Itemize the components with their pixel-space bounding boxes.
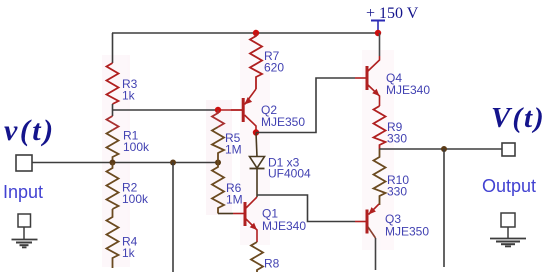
wire red to Q2 base [218,109,243,111]
svg-text:+ 150 V: + 150 V [366,5,419,22]
resistor R8 [251,242,280,272]
wire D1 bottom to Q3 base [257,195,355,222]
svg-text:330: 330 [387,185,407,199]
resistor R10 [374,149,410,205]
svg-text:1k: 1k [122,89,136,103]
svg-text:100k: 100k [123,140,150,154]
wire output line [380,148,503,150]
wire input line [32,162,218,164]
transistor Q2 (PNP MJE350) [231,89,305,133]
input port [16,155,32,171]
faint pink halos [102,30,394,267]
output port [502,143,515,156]
svg-text:1M: 1M [226,193,243,207]
wire down from input line [172,163,174,273]
ground input [12,214,38,247]
resistor R2 [107,163,150,210]
diode D1 UF4004 [250,133,312,198]
svg-text:330: 330 [387,132,407,146]
svg-text:v(t): v(t) [4,114,56,147]
wire R3-R1 junction to Q2 base [113,104,219,116]
ground output [490,213,526,246]
node dot output [441,146,447,152]
resistor R7 [250,33,284,89]
wire top rail +150V [112,32,378,34]
resistor R1 [107,116,151,163]
resistor R3 [107,63,138,104]
svg-text:100k: 100k [122,192,149,206]
node dot R5 top [215,107,221,113]
svg-text:1M: 1M [225,143,242,157]
transistor Q1 (NPN MJE340) [233,197,306,242]
transistor Q3 (PNP MJE350) [355,204,429,270]
transistor Q4 (NPN MJE340) [355,33,430,106]
wire R3 top lead [112,33,114,63]
node dot input tap [170,160,176,166]
svg-text:620: 620 [264,61,284,75]
svg-text:MJE350: MJE350 [385,225,429,239]
node dot rail-R7 [253,30,259,36]
resistor R9 [374,106,408,149]
svg-text:V(t): V(t) [491,102,546,134]
wire Q2 collector to Q4 base [256,78,355,133]
resistor R5 [212,110,242,163]
node dot R5-R6 [215,160,221,166]
svg-text:Output: Output [482,176,536,196]
power port +150V [366,5,419,33]
svg-text:1k: 1k [122,246,136,260]
svg-text:MJE340: MJE340 [386,83,430,97]
svg-text:MJE340: MJE340 [262,219,306,233]
node dot R1-R2 [110,160,116,166]
wire output down [443,149,445,267]
node dot rail-Q4 [375,30,381,36]
svg-text:MJE350: MJE350 [261,115,305,129]
resistor R6 [212,163,243,214]
svg-text:Input: Input [3,182,43,202]
svg-text:R8: R8 [264,257,280,271]
svg-text:UF4004: UF4004 [268,166,311,180]
wire R6 to Q1 base [218,213,233,215]
node dot Q2 collector [253,129,259,135]
resistor R4 [107,209,138,268]
